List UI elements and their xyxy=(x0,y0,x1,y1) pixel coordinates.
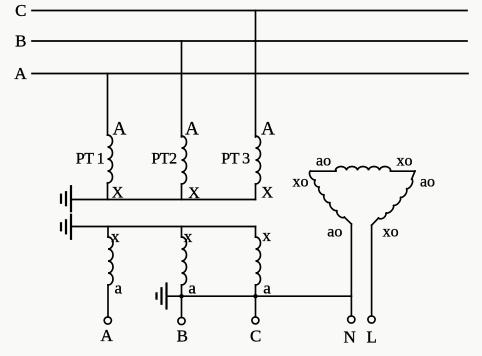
terminal circle N xyxy=(348,316,355,323)
PT2 secondary winding xyxy=(182,237,187,285)
wire: PT1 secondary to terminal A xyxy=(107,285,109,317)
svg-text:PT2: PT2 xyxy=(151,151,177,168)
svg-text:A: A xyxy=(100,326,113,345)
terminal circle L xyxy=(368,316,375,323)
PT1 secondary winding xyxy=(108,237,113,285)
wire: x bus to PT1 secondary xyxy=(107,227,109,238)
wire: PT3 primary bottom to X bus xyxy=(255,184,257,200)
svg-text:PT 3: PT 3 xyxy=(221,151,250,168)
wire: delta to terminal L xyxy=(371,225,373,316)
svg-text:L: L xyxy=(367,328,377,347)
svg-text:PT 1: PT 1 xyxy=(76,151,105,168)
svg-text:A: A xyxy=(113,119,127,140)
svg-text:a: a xyxy=(115,279,123,298)
wire: PT2 secondary to terminal B xyxy=(181,285,183,318)
ground G3 xyxy=(165,284,167,309)
svg-text:ao: ao xyxy=(316,153,331,170)
PT1 primary winding xyxy=(108,135,113,183)
wire: delta to terminal N xyxy=(350,224,352,316)
svg-text:a: a xyxy=(263,279,271,298)
wire: dropper from bus C to PT3 primary xyxy=(255,11,257,138)
svg-text:xo: xo xyxy=(397,153,413,170)
junction at B wire xyxy=(179,294,183,298)
wire: PT2 primary bottom to X bus xyxy=(181,184,183,200)
terminal circle A xyxy=(104,317,111,324)
svg-text:C: C xyxy=(250,327,261,346)
svg-text:C: C xyxy=(15,1,26,20)
ground G2 for x bus xyxy=(70,215,72,239)
three-phase bus A xyxy=(32,73,468,75)
x bus (secondary neutral) xyxy=(71,226,256,228)
svg-text:xo: xo xyxy=(383,224,399,241)
svg-text:A: A xyxy=(185,119,199,140)
svg-text:B: B xyxy=(15,32,26,51)
open-delta top winding coil xyxy=(336,166,391,170)
svg-text:X: X xyxy=(262,185,274,202)
svg-text:x: x xyxy=(184,227,193,246)
open-delta top winding (plain ends) xyxy=(311,169,416,172)
PT3 primary winding xyxy=(256,136,261,184)
open-delta left winding tail xyxy=(344,217,351,224)
svg-text:B: B xyxy=(177,327,188,346)
open-delta left winding coil xyxy=(309,171,344,218)
svg-text:a: a xyxy=(188,279,196,298)
svg-text:ao: ao xyxy=(420,174,435,191)
svg-text:ao: ao xyxy=(327,224,342,241)
PT3 secondary winding xyxy=(256,237,261,285)
svg-text:x: x xyxy=(262,226,271,245)
three-phase bus C xyxy=(32,10,467,12)
X bus (primary neutral) xyxy=(71,199,256,201)
svg-text:N: N xyxy=(344,328,356,347)
terminal circle C xyxy=(252,317,259,324)
wire: x bus to PT2 secondary xyxy=(181,227,183,238)
PT2 primary winding xyxy=(182,136,187,184)
svg-text:A: A xyxy=(14,64,27,83)
ground G1 for X bus xyxy=(70,186,72,211)
wire: PT1 primary bottom to X bus xyxy=(107,183,109,200)
open-delta right vertex stub xyxy=(412,171,415,179)
junction at C wire xyxy=(253,294,257,298)
open-delta right winding tail xyxy=(372,218,379,225)
svg-text:A: A xyxy=(261,119,275,140)
terminal circle B xyxy=(178,317,185,324)
ground G3 bus to N xyxy=(167,295,352,297)
wire: dropper from bus B to PT2 primary xyxy=(181,41,183,137)
wire: x bus to PT3 secondary xyxy=(255,227,257,238)
three-phase bus B xyxy=(32,40,467,42)
open-delta right winding coil xyxy=(379,179,413,219)
wire: PT3 secondary to terminal C xyxy=(255,285,257,317)
wire: dropper from bus A to PT1 primary xyxy=(107,74,109,136)
svg-text:xo: xo xyxy=(293,174,309,191)
